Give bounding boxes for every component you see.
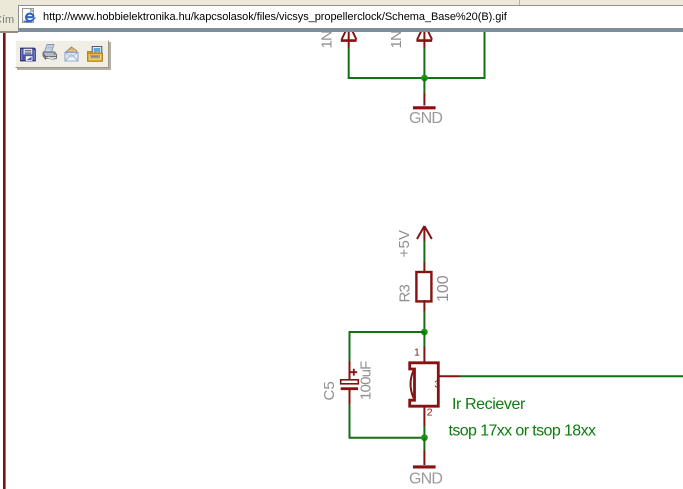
browser top bar	[0, 0, 683, 31]
op IC body TSOP (IR receiver U1)	[410, 363, 439, 406]
svg-text:2: 2	[427, 406, 433, 418]
svg-text:100: 100	[435, 275, 452, 302]
image hover toolbar	[15, 40, 109, 68]
wire bottom horizontal	[349, 437, 425, 439]
print icon	[41, 43, 59, 62]
svg-text:GND: GND	[409, 471, 442, 488]
wire C5 bottom vertical	[349, 405, 351, 439]
wire horizontal to C5	[349, 331, 425, 333]
svg-text:R3: R3	[397, 284, 414, 302]
diode D2	[416, 20, 432, 48]
save icon	[20, 47, 36, 62]
wire R3 to junction	[423, 311, 425, 332]
URL text	[43, 12, 507, 23]
svg-text:100uF: 100uF	[358, 361, 375, 400]
pin 1 stub	[423, 347, 425, 362]
schematic frame left border	[3, 33, 6, 489]
svg-text:GND: GND	[409, 110, 442, 127]
Cím label	[0, 15, 14, 26]
pin stub C5 top	[349, 361, 351, 380]
junction mid	[421, 329, 428, 336]
pin 2 stub	[423, 406, 425, 426]
supply +5V	[396, 226, 432, 258]
diode D1	[341, 20, 357, 48]
resistor R3	[416, 272, 431, 301]
pin stub R3 top	[423, 262, 425, 272]
pin stub R3 bottom	[423, 300, 425, 311]
wire C5 top vertical	[349, 331, 351, 361]
wire top horizontal	[348, 77, 486, 79]
pin stub C5 bottom	[349, 390, 351, 405]
svg-text:1: 1	[414, 347, 420, 359]
wire junction to GND2	[423, 438, 425, 451]
capacitor C5	[341, 369, 359, 390]
wire junction to IC pin1	[423, 332, 425, 347]
pin 3 stub	[438, 375, 459, 377]
junction bottom	[421, 434, 428, 441]
svg-text:3: 3	[434, 379, 440, 391]
toolbar separator stub	[519, 0, 520, 5]
IE page icon	[21, 8, 37, 24]
mail icon	[63, 45, 80, 63]
svg-text:Ir Reciever: Ir Reciever	[452, 396, 526, 413]
ground GND1	[409, 93, 442, 127]
svg-text:C5: C5	[321, 381, 338, 400]
wire D1 down	[348, 48, 350, 79]
address input	[18, 5, 683, 29]
wire +5V to R3	[423, 241, 425, 262]
bottom blue-gray band	[18, 28, 683, 32]
wire pin2 to junction	[423, 426, 425, 438]
svg-text:tsop 17xx or tsop 18xx: tsop 17xx or tsop 18xx	[449, 423, 596, 440]
folder icon	[86, 45, 104, 63]
wire right vertical	[484, 20, 486, 78]
wire pin3 to right edge	[460, 375, 683, 377]
ground GND2	[409, 451, 442, 488]
lens arc	[411, 371, 414, 398]
wire junction to GND1	[423, 78, 425, 93]
junction top	[421, 75, 428, 82]
wire D2 down	[423, 48, 425, 79]
svg-text:+5V: +5V	[396, 230, 413, 258]
